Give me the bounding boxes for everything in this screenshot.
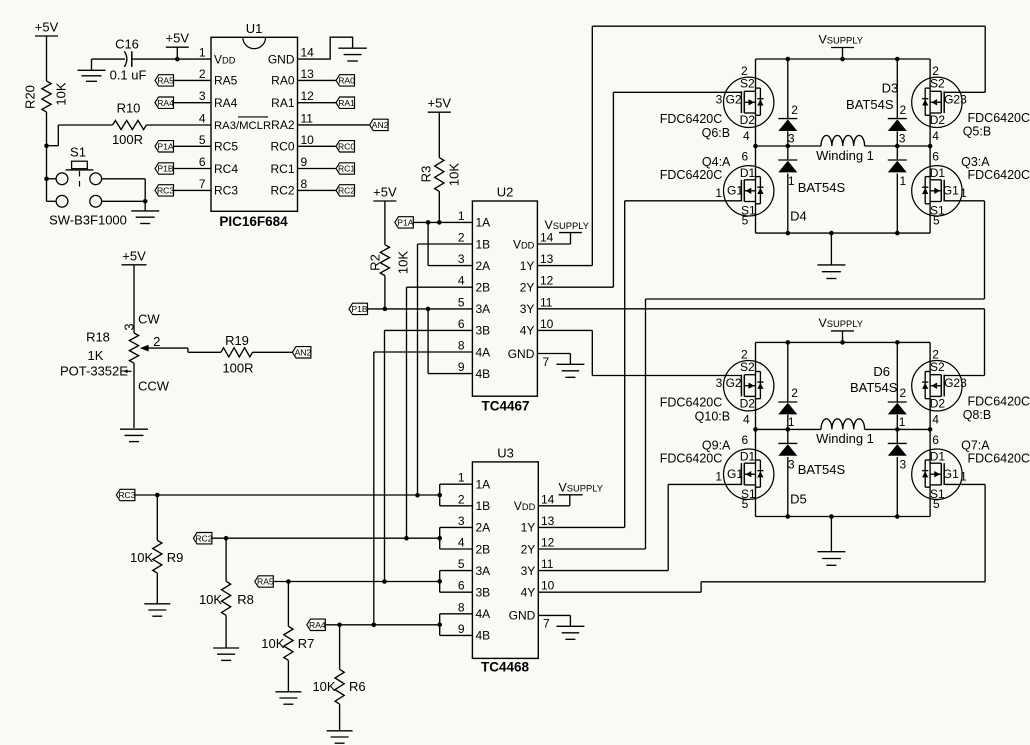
svg-text:11: 11 bbox=[540, 295, 553, 309]
svg-text:9: 9 bbox=[458, 360, 465, 374]
IC U3 TC4468 bbox=[458, 446, 555, 675]
svg-text:BAT54S: BAT54S bbox=[798, 462, 846, 477]
U3 input pair 4A/4B bracket bbox=[440, 614, 473, 636]
svg-text:GND: GND bbox=[509, 609, 536, 623]
net flag RC3 (U3) bbox=[116, 489, 135, 500]
wire U2 4Y to Q10 gate bbox=[537, 330, 741, 375]
svg-text:5: 5 bbox=[742, 497, 749, 511]
capacitor C16 0.1uF bbox=[92, 36, 178, 82]
svg-text:2: 2 bbox=[791, 386, 798, 400]
wire RC2 net bbox=[212, 537, 440, 539]
svg-text:4: 4 bbox=[199, 111, 206, 125]
svg-text:FDC6420C: FDC6420C bbox=[968, 395, 1030, 409]
svg-text:3B: 3B bbox=[476, 586, 491, 600]
wire U3 1Y to Q4 gate bbox=[538, 201, 741, 528]
svg-text:3A: 3A bbox=[476, 302, 491, 316]
svg-text:2: 2 bbox=[899, 103, 906, 117]
svg-text:G1: G1 bbox=[727, 184, 743, 198]
node junction P1B/4B bbox=[426, 307, 431, 312]
net flag RA0 bbox=[336, 75, 355, 86]
svg-text:4B: 4B bbox=[476, 367, 491, 381]
wire to U1 pin 1 bbox=[177, 58, 211, 60]
wire P1A to U2 pin1 bbox=[413, 221, 472, 223]
svg-text:1: 1 bbox=[458, 471, 465, 485]
svg-text:RA2: RA2 bbox=[271, 118, 295, 132]
svg-text:1: 1 bbox=[199, 46, 206, 60]
svg-text:POT-3352E: POT-3352E bbox=[60, 364, 128, 379]
U3 input pair 3A/3B bracket bbox=[440, 571, 473, 593]
net flag P1A (U1) bbox=[155, 141, 174, 152]
wire U1 pin5 RC5 bbox=[173, 145, 211, 147]
svg-text:BAT54S: BAT54S bbox=[850, 380, 898, 395]
node junction mid D-right bbox=[895, 144, 900, 149]
diode D6 BAT54S (right pair) bbox=[888, 342, 907, 516]
node junction bottom bbox=[786, 231, 791, 236]
node junction mid-left bbox=[753, 144, 758, 149]
wire U2 3Y to Q8 gate bbox=[537, 309, 984, 376]
net flag RA4 (U1) bbox=[155, 97, 174, 108]
svg-text:10K: 10K bbox=[261, 636, 284, 651]
svg-text:D1: D1 bbox=[740, 166, 756, 180]
net flag RA5 (U1) bbox=[155, 75, 174, 86]
svg-text:D2: D2 bbox=[740, 113, 756, 127]
wire output node rail bbox=[756, 428, 931, 430]
svg-text:VSUPPLY: VSUPPLY bbox=[819, 33, 864, 47]
svg-text:7: 7 bbox=[543, 617, 550, 631]
svg-text:7: 7 bbox=[543, 355, 550, 369]
switch S1 SW-B3F1000 bbox=[47, 145, 146, 228]
net flag RC3 (U1) bbox=[155, 185, 174, 196]
ground (bottom bridge bridge) bbox=[817, 517, 845, 566]
svg-text:4: 4 bbox=[458, 274, 465, 288]
svg-text:3Y: 3Y bbox=[520, 302, 535, 316]
svg-text:G1: G1 bbox=[943, 467, 959, 481]
svg-text:10K: 10K bbox=[199, 592, 222, 607]
svg-text:4: 4 bbox=[458, 536, 465, 550]
power +5V (U1 VDD) bbox=[166, 31, 190, 59]
svg-text:G1: G1 bbox=[943, 184, 959, 198]
node junction RA5/3B bbox=[382, 579, 387, 584]
ground (R6) bbox=[327, 731, 353, 743]
node junction S1/ground bbox=[143, 199, 148, 204]
node junction rail bbox=[895, 57, 900, 62]
wire left column S/D (Q10:B/Q9:A) bbox=[755, 342, 757, 516]
svg-text:S2: S2 bbox=[930, 360, 945, 374]
transistor Q10:B FDC6420C (high-side left) bbox=[660, 348, 774, 427]
net flag RC2 (U3) bbox=[193, 533, 212, 544]
net flag RC0 bbox=[336, 141, 355, 152]
svg-text:D1: D1 bbox=[930, 166, 946, 180]
wire U2 pin4 2B down to RC2 net bbox=[407, 287, 473, 538]
svg-text:TC4468: TC4468 bbox=[481, 660, 530, 675]
potentiometer R18 1K POT-3352E bbox=[60, 311, 188, 393]
svg-text:Winding 1: Winding 1 bbox=[816, 431, 874, 446]
wire U2 1Y to Q5 gate bbox=[537, 26, 985, 265]
svg-text:VDD: VDD bbox=[513, 237, 535, 251]
svg-text:S2: S2 bbox=[740, 360, 755, 374]
svg-text:5: 5 bbox=[742, 213, 749, 227]
svg-text:CCW: CCW bbox=[138, 379, 170, 394]
svg-text:D5: D5 bbox=[790, 492, 807, 507]
svg-text:2: 2 bbox=[932, 348, 939, 362]
node junction pair 4 bbox=[437, 622, 442, 627]
transistor Q5:B FDC6420C (high-side right) bbox=[912, 64, 1030, 143]
svg-text:BAT54S: BAT54S bbox=[846, 97, 894, 112]
svg-text:G2: G2 bbox=[726, 92, 742, 106]
svg-text:5: 5 bbox=[458, 557, 465, 571]
svg-text:1Y: 1Y bbox=[520, 259, 535, 273]
ground (R9) bbox=[144, 604, 170, 616]
svg-text:RA5: RA5 bbox=[157, 76, 174, 86]
svg-text:10K: 10K bbox=[53, 82, 68, 105]
wire U2 pin2 1B down to RC3 net bbox=[418, 244, 473, 495]
svg-text:2: 2 bbox=[741, 64, 748, 78]
svg-text:2: 2 bbox=[899, 386, 906, 400]
wire right column S/D (Q8:B/Q7:A) bbox=[929, 342, 931, 516]
svg-text:R10: R10 bbox=[117, 101, 141, 116]
node junction RC2/R8 bbox=[224, 536, 229, 541]
node junction R20/R10/S1 bbox=[44, 143, 49, 148]
svg-text:P1A: P1A bbox=[397, 218, 414, 228]
wire ground rail bbox=[756, 232, 931, 234]
transistor Q8:B FDC6420C (high-side right) bbox=[912, 348, 1030, 427]
svg-text:RA0: RA0 bbox=[338, 76, 355, 86]
diode D4 BAT54S (left pair) bbox=[778, 59, 845, 233]
wire left column S/D (Q6:B/Q4:A) bbox=[755, 59, 757, 233]
svg-text:100R: 100R bbox=[112, 132, 143, 147]
svg-text:12: 12 bbox=[540, 274, 554, 288]
svg-text:9: 9 bbox=[301, 155, 308, 169]
node junction RC3/1B bbox=[415, 493, 420, 498]
svg-text:6: 6 bbox=[742, 150, 749, 164]
ground (U3 pin 7) bbox=[538, 615, 584, 639]
svg-text:100R: 100R bbox=[222, 361, 253, 376]
svg-text:1: 1 bbox=[960, 469, 967, 483]
svg-text:VSUPPLY: VSUPPLY bbox=[819, 316, 864, 330]
svg-text:R18: R18 bbox=[86, 330, 110, 345]
wire U2 pin9 4B up to P1B bbox=[428, 309, 472, 374]
svg-text:6: 6 bbox=[932, 433, 939, 447]
svg-text:11: 11 bbox=[541, 557, 554, 571]
svg-text:3: 3 bbox=[458, 252, 465, 266]
svg-text:D2: D2 bbox=[930, 397, 946, 411]
wire U3 4Y to Q7 gate bbox=[538, 484, 985, 592]
IC U2 TC4467 bbox=[458, 185, 554, 414]
svg-text:Q8:B: Q8:B bbox=[963, 408, 992, 422]
svg-text:3: 3 bbox=[960, 92, 967, 106]
node junction mid D-right bbox=[895, 427, 900, 432]
svg-text:6: 6 bbox=[458, 317, 465, 331]
svg-text:G2: G2 bbox=[944, 376, 960, 390]
net flag AN2 (R19) bbox=[292, 347, 311, 358]
svg-text:4Y: 4Y bbox=[521, 586, 536, 600]
svg-text:2Y: 2Y bbox=[521, 542, 536, 556]
wire P1B to U2 pin5 bbox=[368, 308, 473, 310]
power +5V (R3) bbox=[428, 96, 452, 158]
svg-text:BAT54S: BAT54S bbox=[798, 180, 846, 195]
svg-text:2: 2 bbox=[932, 64, 939, 78]
svg-text:2: 2 bbox=[458, 492, 465, 506]
svg-text:FDC6420C: FDC6420C bbox=[660, 451, 723, 465]
svg-text:3Y: 3Y bbox=[521, 564, 536, 578]
svg-text:R7: R7 bbox=[298, 636, 315, 651]
wire U3 3Y to Q9 gate bbox=[538, 484, 741, 570]
svg-text:P1B: P1B bbox=[157, 164, 174, 174]
resistor R6 10K bbox=[312, 625, 365, 731]
svg-text:PIC16F684: PIC16F684 bbox=[219, 214, 288, 229]
svg-text:RA1: RA1 bbox=[271, 96, 295, 110]
wire R18 to ground bbox=[133, 363, 135, 428]
svg-text:2: 2 bbox=[741, 348, 748, 362]
wire U1 pin10 RC0 bbox=[298, 145, 337, 147]
wire VSUPPLY rail (bottom bridge) bbox=[756, 341, 931, 343]
svg-text:RA5: RA5 bbox=[257, 577, 274, 587]
node junction mid-left bbox=[753, 427, 758, 432]
svg-text:RC2: RC2 bbox=[270, 184, 294, 198]
wire U2 pin6 3B down to RA5 net bbox=[385, 330, 473, 581]
ground (top bridge bridge) bbox=[817, 233, 845, 278]
svg-text:G2: G2 bbox=[944, 92, 960, 106]
node junction rail bbox=[895, 340, 900, 345]
svg-text:5: 5 bbox=[199, 133, 206, 147]
svg-text:4: 4 bbox=[932, 412, 939, 426]
svg-text:CW: CW bbox=[138, 311, 160, 326]
power +5V (R18) bbox=[122, 248, 147, 333]
svg-text:3: 3 bbox=[121, 323, 136, 330]
wire U1 pin3 RA4 bbox=[173, 102, 211, 104]
svg-text:Q6:B: Q6:B bbox=[702, 126, 731, 140]
power VSUPPLY (top bridge) bbox=[819, 33, 864, 60]
svg-text:RC5: RC5 bbox=[214, 140, 238, 154]
svg-text:R3: R3 bbox=[418, 166, 433, 183]
svg-text:Q5:B: Q5:B bbox=[963, 124, 992, 138]
wire RA4 net bbox=[325, 624, 439, 626]
svg-text:0.1 uF: 0.1 uF bbox=[110, 67, 147, 82]
wire U1 pin2 RA5 bbox=[173, 79, 211, 81]
node junction RA4/R6 bbox=[337, 623, 342, 628]
svg-text:FDC6420C: FDC6420C bbox=[968, 451, 1030, 465]
svg-text:RC2: RC2 bbox=[338, 186, 355, 196]
svg-text:VSUPPLY: VSUPPLY bbox=[545, 218, 590, 232]
svg-text:3: 3 bbox=[199, 89, 206, 103]
svg-text:5: 5 bbox=[933, 497, 940, 511]
transistor Q3:A FDC6420C (low-side right) bbox=[912, 150, 1030, 228]
svg-text:D3: D3 bbox=[882, 81, 899, 96]
svg-text:2Y: 2Y bbox=[520, 281, 535, 295]
wire U2 pin3 2A up to P1A bbox=[428, 222, 472, 265]
power +5V (R20 pull-up) bbox=[35, 20, 59, 82]
wire RC3 net bbox=[135, 494, 440, 496]
resistor R3 10K bbox=[418, 158, 461, 223]
node junction RA4/4A bbox=[372, 623, 377, 628]
diode D3 BAT54S (right pair) bbox=[888, 59, 907, 233]
svg-text:RA3/MCLR: RA3/MCLR bbox=[214, 120, 271, 132]
svg-text:1B: 1B bbox=[476, 237, 491, 251]
node junction RA5/R7 bbox=[286, 579, 291, 584]
resistor R9 10K bbox=[130, 495, 183, 604]
wire U1 pin7 RC3 bbox=[173, 189, 211, 191]
node junction mid-right bbox=[928, 144, 933, 149]
net flag RC2 bbox=[336, 185, 355, 196]
transistor Q4:A FDC6420C (low-side left) bbox=[660, 150, 774, 228]
svg-text:+5V: +5V bbox=[428, 96, 452, 111]
svg-text:4A: 4A bbox=[476, 345, 491, 359]
svg-text:RA4: RA4 bbox=[214, 96, 238, 110]
svg-text:D2: D2 bbox=[930, 113, 946, 127]
svg-text:RA5: RA5 bbox=[214, 74, 238, 88]
svg-text:U1: U1 bbox=[246, 21, 263, 36]
node junction RC2/2B bbox=[404, 536, 409, 541]
svg-text:8: 8 bbox=[458, 600, 465, 614]
svg-text:11: 11 bbox=[301, 111, 314, 125]
ground (C16) bbox=[78, 59, 106, 81]
svg-text:R19: R19 bbox=[225, 333, 249, 348]
svg-text:U3: U3 bbox=[497, 446, 514, 461]
svg-text:5: 5 bbox=[933, 213, 940, 227]
wire right column S/D (Q5:B/Q3:A) bbox=[929, 59, 931, 233]
node junction rail bbox=[786, 340, 791, 345]
power +5V (R2) bbox=[373, 185, 397, 245]
svg-text:1: 1 bbox=[788, 174, 795, 188]
svg-text:SW-B3F1000: SW-B3F1000 bbox=[49, 213, 127, 228]
wire output node rail bbox=[756, 145, 931, 147]
svg-text:1: 1 bbox=[788, 415, 795, 429]
svg-text:8: 8 bbox=[458, 339, 465, 353]
svg-text:3B: 3B bbox=[476, 324, 491, 338]
svg-text:R20: R20 bbox=[22, 85, 37, 109]
node junction RC3/R9 bbox=[155, 493, 160, 498]
node junction pair 1 bbox=[437, 493, 442, 498]
svg-text:AN2: AN2 bbox=[372, 120, 389, 130]
transistor Q6:B FDC6420C (high-side left) bbox=[660, 64, 774, 143]
svg-text:D2: D2 bbox=[740, 397, 756, 411]
svg-text:1Y: 1Y bbox=[521, 521, 536, 535]
svg-text:R8: R8 bbox=[237, 592, 254, 607]
ground (S1) bbox=[131, 201, 159, 223]
node junction rail bbox=[840, 340, 845, 345]
svg-text:4B: 4B bbox=[476, 629, 491, 643]
svg-text:13: 13 bbox=[540, 252, 554, 266]
svg-text:RC3: RC3 bbox=[118, 490, 135, 500]
transistor Q7:A FDC6420C (low-side right) bbox=[912, 433, 1030, 511]
svg-text:RC4: RC4 bbox=[214, 162, 238, 176]
svg-text:4Y: 4Y bbox=[520, 324, 535, 338]
svg-text:13: 13 bbox=[301, 67, 315, 81]
node junction bottom bbox=[895, 514, 900, 519]
svg-text:6: 6 bbox=[932, 150, 939, 164]
svg-text:3: 3 bbox=[716, 376, 723, 390]
wire U1 pin9 RC1 bbox=[298, 168, 337, 170]
svg-text:10: 10 bbox=[541, 579, 555, 593]
node junction VDD bbox=[175, 57, 180, 62]
svg-text:FDC6420C: FDC6420C bbox=[660, 112, 723, 126]
svg-text:8: 8 bbox=[301, 177, 308, 191]
power VSUPPLY (U3) bbox=[538, 480, 604, 506]
svg-text:2: 2 bbox=[199, 67, 206, 81]
node junction P1A/R3 bbox=[437, 220, 442, 225]
svg-text:2A: 2A bbox=[476, 259, 491, 273]
net flag RC1 bbox=[336, 163, 355, 174]
svg-text:RA0: RA0 bbox=[271, 74, 295, 88]
svg-text:3: 3 bbox=[899, 131, 906, 145]
svg-text:7: 7 bbox=[199, 177, 206, 191]
power VSUPPLY (U2) bbox=[537, 218, 589, 244]
ground (R7) bbox=[275, 692, 301, 704]
svg-text:RC3: RC3 bbox=[214, 184, 238, 198]
node junction rail bbox=[840, 57, 845, 62]
node junction S1 top bbox=[44, 177, 49, 182]
ground (U1 pin 14 GND) bbox=[298, 37, 367, 61]
svg-text:TC4467: TC4467 bbox=[481, 399, 529, 414]
svg-text:FDC6420C: FDC6420C bbox=[660, 396, 723, 410]
node junction pair 3 bbox=[437, 579, 442, 584]
svg-text:D4: D4 bbox=[790, 208, 807, 223]
node junction bottom bbox=[786, 514, 791, 519]
svg-text:G1: G1 bbox=[727, 467, 743, 481]
resistor R19 100R bbox=[188, 333, 293, 376]
node junction rail bbox=[786, 57, 791, 62]
wire U1 pin11 RA2 bbox=[298, 124, 370, 126]
svg-text:14: 14 bbox=[541, 492, 555, 506]
svg-text:U2: U2 bbox=[497, 185, 514, 200]
wire ground rail bbox=[756, 516, 931, 518]
svg-text:S1: S1 bbox=[70, 145, 86, 160]
svg-text:14: 14 bbox=[301, 46, 315, 60]
wire U3 2Y to Q3 gate bbox=[538, 201, 984, 549]
svg-text:VDD: VDD bbox=[514, 499, 536, 513]
power VSUPPLY (bottom bridge) bbox=[819, 316, 864, 343]
svg-text:3A: 3A bbox=[476, 564, 491, 578]
wire U1 pin8 RC2 bbox=[298, 189, 337, 191]
svg-text:RA1: RA1 bbox=[338, 98, 355, 108]
svg-text:R2: R2 bbox=[368, 254, 383, 271]
inductor Winding 1 (top bridge) bbox=[816, 135, 874, 162]
diode label D3 bbox=[846, 81, 898, 112]
resistor R8 10K bbox=[199, 538, 254, 648]
node junction mid D-left bbox=[786, 144, 791, 149]
ground (U2 pin 7) bbox=[537, 354, 584, 378]
svg-text:D1: D1 bbox=[930, 450, 946, 464]
svg-text:RC3: RC3 bbox=[157, 186, 174, 196]
svg-text:R6: R6 bbox=[349, 679, 366, 694]
svg-text:12: 12 bbox=[541, 536, 555, 550]
svg-text:RC1: RC1 bbox=[270, 162, 294, 176]
net flag P1A (U2) bbox=[395, 217, 414, 228]
svg-text:P1A: P1A bbox=[157, 141, 174, 151]
svg-text:4A: 4A bbox=[476, 607, 491, 621]
svg-text:2: 2 bbox=[458, 231, 465, 245]
svg-text:4: 4 bbox=[743, 412, 750, 426]
svg-text:6: 6 bbox=[742, 433, 749, 447]
svg-text:RC2: RC2 bbox=[195, 533, 212, 543]
net flag P1B (U2) bbox=[349, 303, 368, 314]
node junction pair 2 bbox=[437, 536, 442, 541]
svg-text:GND: GND bbox=[508, 347, 535, 361]
wire U1 pin12 RA1 bbox=[298, 102, 337, 104]
inductor Winding 1 (bottom bridge) bbox=[816, 419, 874, 446]
svg-text:3: 3 bbox=[960, 376, 967, 390]
node junction P1A/2A bbox=[426, 220, 431, 225]
svg-text:9: 9 bbox=[458, 622, 465, 636]
svg-text:1: 1 bbox=[899, 415, 906, 429]
net flag RA4 (U3) bbox=[307, 619, 326, 630]
transistor Q9:A FDC6420C (low-side left) bbox=[660, 433, 774, 511]
svg-text:P1B: P1B bbox=[351, 304, 368, 314]
wire R20 to S1 bbox=[46, 112, 48, 201]
svg-text:14: 14 bbox=[540, 231, 554, 245]
node junction mid-right bbox=[928, 427, 933, 432]
svg-text:13: 13 bbox=[541, 514, 555, 528]
